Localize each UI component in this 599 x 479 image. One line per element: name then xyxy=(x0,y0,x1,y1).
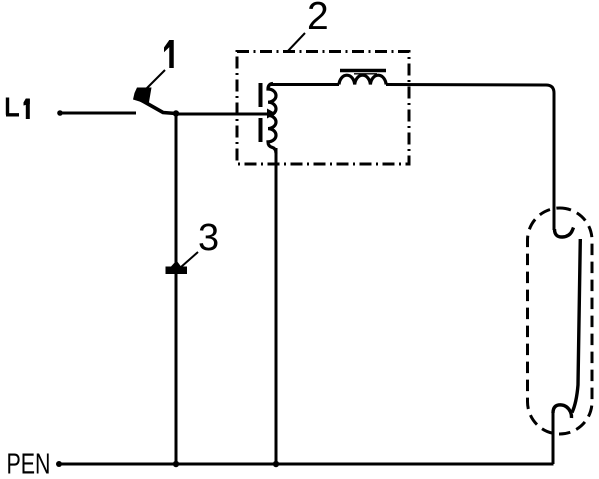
label 2 leader line xyxy=(287,33,305,52)
transformer core bar xyxy=(259,83,263,142)
label 3 leader line xyxy=(181,252,198,267)
wire lamp bottom stem to PEN xyxy=(552,411,555,464)
wire L1 supply lead xyxy=(57,110,136,116)
lamp top electrode hook xyxy=(555,228,574,238)
choke winding (3 arcs) xyxy=(339,75,386,84)
wire tap lead from switch to winding xyxy=(176,113,268,116)
lamp bottom electrode hook xyxy=(553,405,572,418)
switch 1 (movable contact arrow + blade) xyxy=(133,88,176,114)
overvoltage device 3 xyxy=(166,261,188,275)
junction PEN with winding branch xyxy=(273,461,279,467)
wire winding top to choke xyxy=(271,83,339,86)
svg-text:3: 3 xyxy=(198,217,219,259)
svg-text:PEN: PEN xyxy=(7,449,51,479)
node L1 label xyxy=(6,98,30,120)
choke core bar xyxy=(340,69,386,72)
junction below switch xyxy=(173,110,179,116)
junction PEN with switch branch xyxy=(173,461,179,467)
label 3 xyxy=(198,217,219,259)
label 1 xyxy=(164,40,174,68)
autotransformer winding (vertical, 4 arcs) xyxy=(268,84,276,154)
tap arrowhead at winding xyxy=(267,109,276,119)
wire PEN bottom run xyxy=(56,461,554,467)
wire winding bottom down to PEN xyxy=(275,148,278,464)
label 1 leader line xyxy=(146,70,165,89)
wire choke to lamp (top run + right drop) xyxy=(386,85,554,231)
lamp tube envelope (dashed stadium) xyxy=(528,208,593,434)
node PEN label xyxy=(7,449,51,479)
wire vertical from switch junction down to PEN xyxy=(175,114,178,465)
label 2 xyxy=(307,0,329,38)
svg-text:2: 2 xyxy=(307,0,329,38)
ballast enclosure box 2 (dash-dot) xyxy=(237,52,409,165)
lamp internal electrode stem xyxy=(572,239,580,413)
